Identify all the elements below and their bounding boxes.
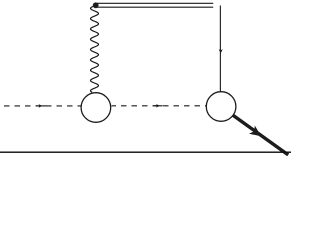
vertical line xyxy=(219,6,221,92)
arrow on vertical line xyxy=(219,49,223,53)
vertex dot xyxy=(93,2,99,8)
dashed line middle segment xyxy=(112,105,207,107)
photon wavy line xyxy=(91,5,99,92)
double line top (lower) xyxy=(97,6,213,8)
bottom border line xyxy=(0,152,291,153)
double line top (upper) xyxy=(97,2,213,4)
arrow on left dashed segment xyxy=(36,104,46,108)
arrowhead on thick line xyxy=(249,126,261,137)
dashed line left segment xyxy=(4,105,81,107)
arrow on middle dashed segment xyxy=(153,104,163,108)
thick outgoing line xyxy=(233,115,288,155)
right blob circle xyxy=(206,92,236,122)
left blob circle xyxy=(81,93,111,123)
